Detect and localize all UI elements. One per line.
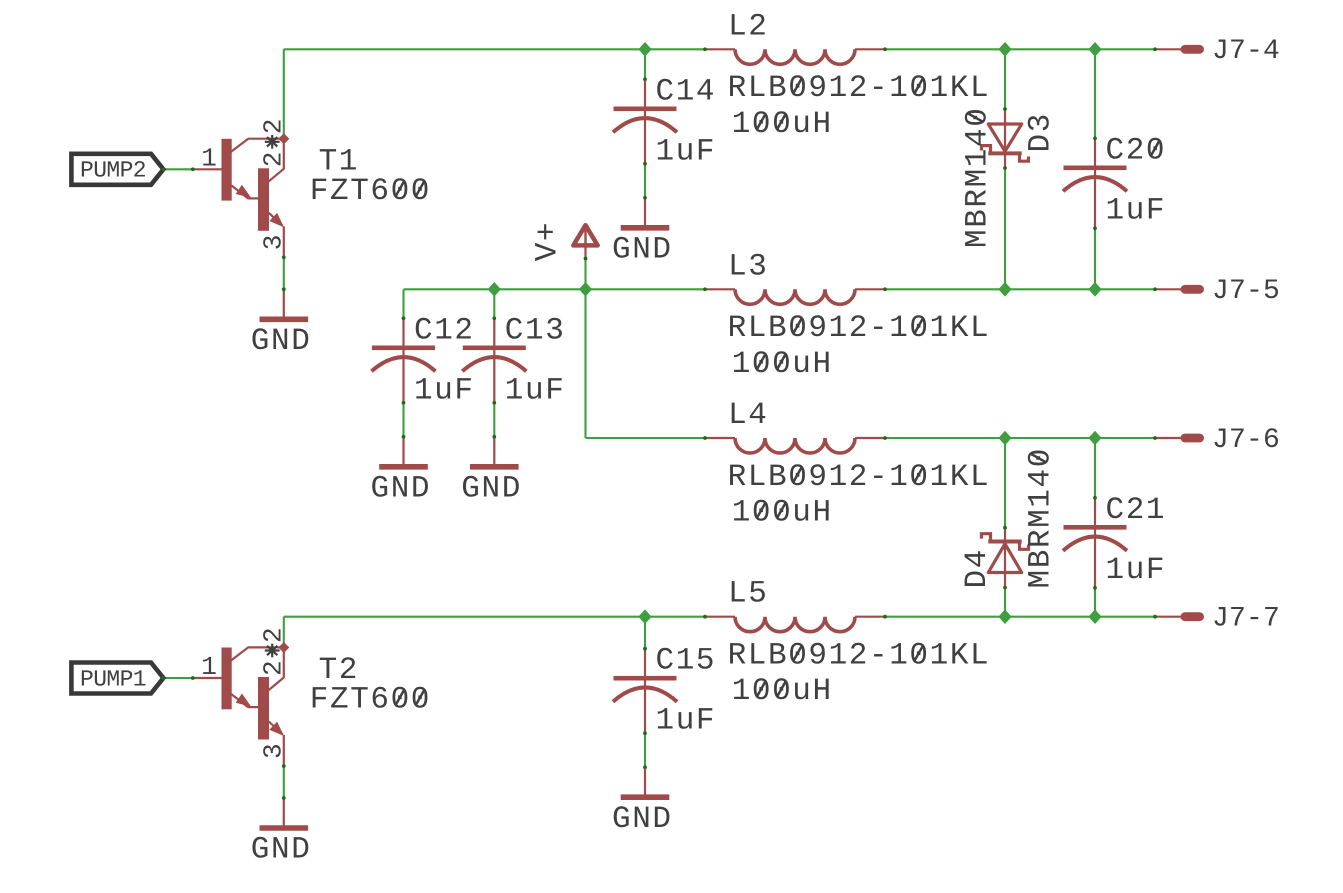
wire PUMP1 to T2 base [163, 677, 192, 679]
wire net J7-4 rail (top) [284, 49, 1155, 139]
svg-text:100uH: 100uH [732, 674, 833, 709]
svg-text:2: 2 [259, 660, 289, 676]
svg-text:1uF: 1uF [1106, 553, 1167, 588]
capacitor C20 [1063, 136, 1127, 230]
label C20 [1106, 133, 1167, 168]
value MBRM140 (D3) [961, 107, 996, 248]
ground at C14 [612, 196, 673, 267]
value 100uH (L3) [732, 347, 833, 382]
junction rail4 at C15 [638, 609, 651, 624]
wire net V+ / J7-5 rail [404, 168, 1156, 438]
connector pin J7-7 [1153, 612, 1204, 621]
svg-text:2: 2 [259, 627, 289, 643]
wire C15 to GND [644, 733, 646, 767]
wire C13 to GND [493, 403, 495, 437]
svg-text:1: 1 [201, 652, 217, 682]
svg-text:D3: D3 [1024, 112, 1059, 152]
wire PUMP2 to T1 base [163, 168, 192, 170]
svg-text:100uH: 100uH [732, 347, 833, 382]
ground at C12 [371, 435, 432, 507]
svg-text:100uH: 100uH [732, 496, 833, 531]
value 100uH (L4) [732, 496, 833, 531]
value FZT600 (T2) [310, 683, 431, 718]
svg-text:GND: GND [612, 802, 673, 837]
svg-text:L5: L5 [728, 577, 768, 612]
capacitor C12 [372, 316, 436, 404]
svg-text:GND: GND [612, 232, 673, 267]
junction rail4 at C21 [1088, 609, 1101, 624]
svg-text:100uH: 100uH [732, 107, 833, 142]
svg-text:L4: L4 [728, 398, 768, 433]
junction rail2 at C20 [1088, 282, 1101, 297]
inductor L2 [703, 47, 887, 64]
wire T2 emitter to GND [283, 766, 285, 798]
svg-text:RLB0912-101KL: RLB0912-101KL [728, 71, 991, 106]
svg-text:FZT600: FZT600 [310, 683, 431, 718]
inductor L3 [703, 287, 887, 304]
svg-text:C21: C21 [1106, 493, 1167, 528]
diode D3 [982, 107, 1029, 170]
junction rail2 at D3 [998, 282, 1011, 297]
ground at T1 emitter [251, 287, 312, 359]
svg-text:GND: GND [461, 471, 522, 506]
svg-text:RLB0912-101KL: RLB0912-101KL [728, 311, 991, 346]
wire net J7-6 rail [586, 438, 1156, 528]
svg-text:V+: V+ [531, 221, 566, 261]
transistor T2 [191, 642, 289, 768]
svg-text:1uF: 1uF [656, 134, 717, 169]
svg-text:PUMP1: PUMP1 [80, 666, 146, 692]
capacitor C15 [613, 647, 677, 735]
svg-text:J7-4: J7-4 [1212, 36, 1280, 67]
wire T1 emitter to GND [283, 257, 285, 289]
value RLB0912-101KL (L5) [728, 639, 991, 674]
svg-text:2: 2 [259, 151, 289, 167]
inductor L5 [703, 615, 887, 632]
svg-text:C12: C12 [414, 313, 475, 348]
pin 2*2 label T2 [259, 627, 289, 676]
svg-text:1: 1 [201, 144, 217, 174]
svg-text:GND: GND [251, 324, 312, 359]
junction rail1 at C14 [638, 42, 651, 57]
transistor T1 [191, 133, 289, 259]
svg-text:2: 2 [259, 118, 289, 134]
capacitor C14 [613, 77, 677, 165]
capacitor C13 [462, 316, 526, 404]
svg-text:PUMP2: PUMP2 [80, 158, 146, 184]
net flag PUMP1 [71, 663, 165, 694]
ground at C15 [612, 765, 673, 837]
svg-text:MBRM140: MBRM140 [1024, 447, 1059, 588]
junction rail3 at D4 [998, 431, 1011, 446]
svg-text:J7-6: J7-6 [1212, 425, 1280, 456]
value RLB0912-101KL (L3) [728, 311, 991, 346]
svg-text:C15: C15 [656, 644, 717, 679]
value MBRM140 (D4) [1024, 447, 1059, 588]
svg-text:FZT600: FZT600 [310, 174, 431, 209]
svg-text:GND: GND [251, 833, 312, 868]
diode D4 [982, 526, 1029, 590]
pin 2*2 label T1 [259, 118, 289, 167]
junction rail3 at C21 [1088, 431, 1101, 446]
svg-text:RLB0912-101KL: RLB0912-101KL [728, 639, 991, 674]
wire C12 to GND [402, 403, 404, 437]
ground at C13 [461, 435, 522, 507]
supply V+ [573, 225, 597, 260]
wire C14 to GND [644, 164, 646, 198]
net flag PUMP2 [71, 154, 165, 185]
svg-text:D4: D4 [960, 548, 995, 588]
inductor L4 [703, 436, 887, 453]
svg-text:3: 3 [258, 743, 288, 759]
junction rail1 at C20 [1088, 42, 1101, 57]
value RLB0912-101KL (L4) [728, 460, 991, 495]
svg-text:J7-7: J7-7 [1212, 604, 1280, 635]
svg-text:C13: C13 [505, 313, 566, 348]
value 100uH (L5) [732, 674, 833, 709]
svg-text:L2: L2 [728, 9, 768, 44]
value 100uH (L2) [732, 107, 833, 142]
connector pin J7-4 [1153, 45, 1204, 54]
svg-text:C14: C14 [656, 74, 717, 109]
connector pin J7-6 [1153, 434, 1204, 443]
connector pin J7-5 [1153, 285, 1204, 294]
wire net J7-7 rail [284, 588, 1155, 649]
value FZT600 (T1) [310, 174, 431, 209]
capacitor C21 [1063, 496, 1127, 590]
value RLB0912-101KL (L2) [728, 71, 991, 106]
svg-text:GND: GND [371, 471, 432, 506]
junction rail2 at V+ [579, 282, 592, 297]
junction rail1 at D3 [998, 42, 1011, 57]
svg-text:1uF: 1uF [1106, 193, 1167, 228]
svg-text:J7-5: J7-5 [1212, 276, 1280, 307]
svg-text:1uF: 1uF [505, 373, 566, 408]
svg-text:L3: L3 [728, 249, 768, 284]
svg-text:C20: C20 [1106, 133, 1167, 168]
svg-text:1uF: 1uF [656, 704, 717, 739]
ground at T2 emitter [251, 796, 312, 868]
svg-text:3: 3 [258, 234, 288, 250]
svg-text:MBRM140: MBRM140 [961, 107, 996, 248]
junction rail4 at D4 [998, 609, 1011, 624]
svg-text:1uF: 1uF [414, 373, 475, 408]
junction rail2 at C13 [488, 282, 501, 297]
svg-text:RLB0912-101KL: RLB0912-101KL [728, 460, 991, 495]
